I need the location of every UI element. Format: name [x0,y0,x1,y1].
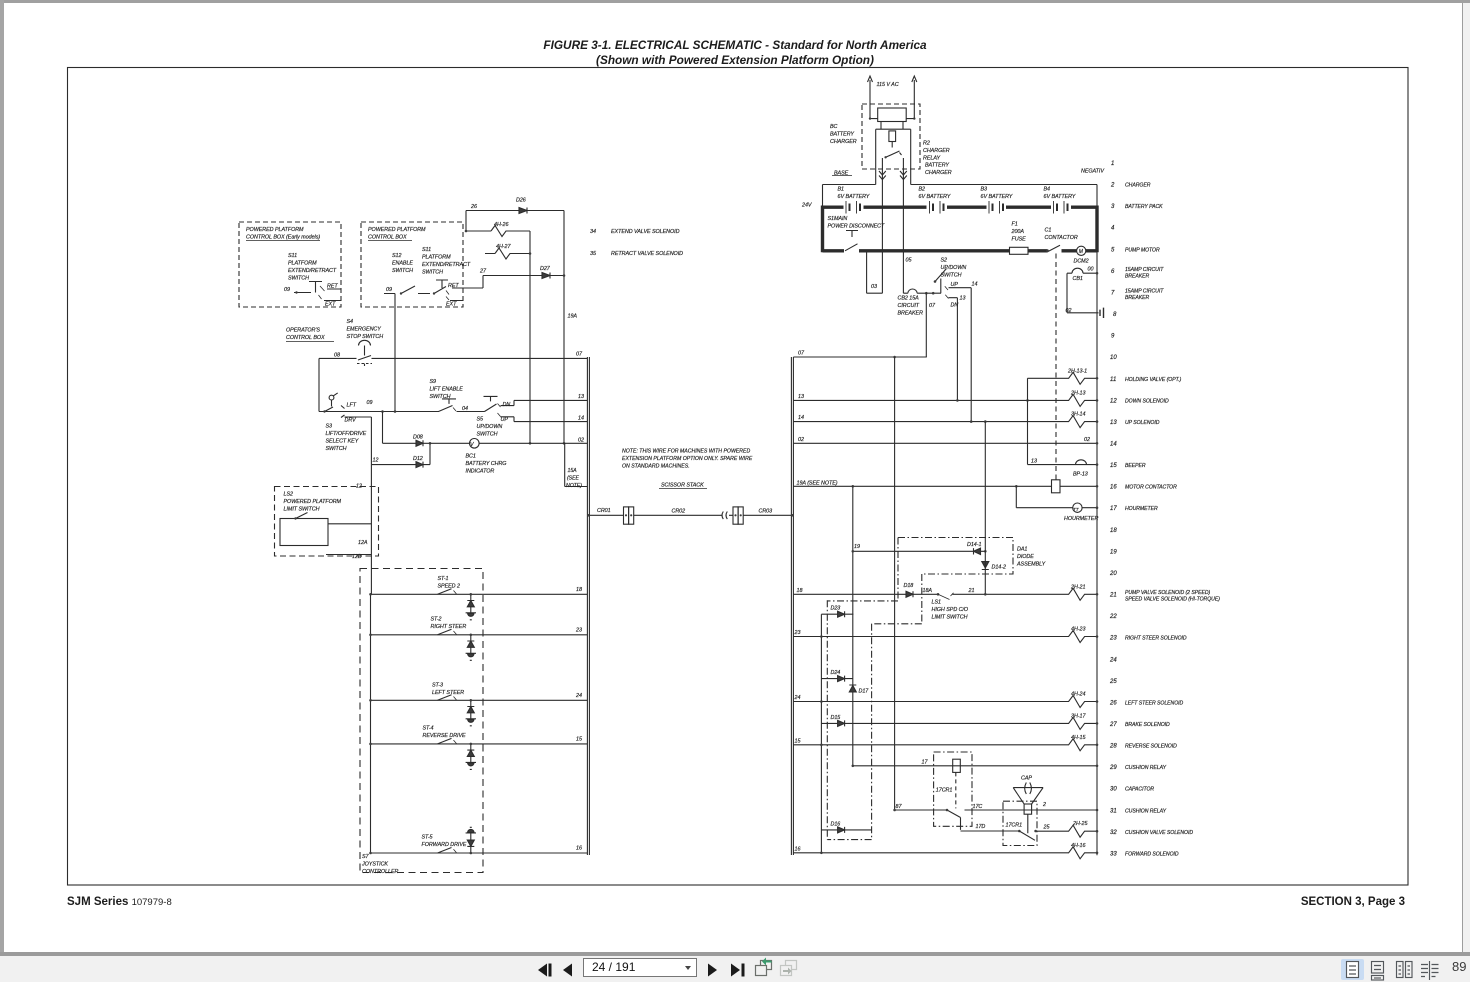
svg-text:25: 25 [1109,679,1117,685]
svg-text:D18: D18 [904,583,914,589]
svg-text:UP: UP [501,417,509,423]
svg-text:RIGHT STEER: RIGHT STEER [431,624,467,630]
svg-text:EMERGENCY: EMERGENCY [347,327,382,333]
svg-text:SWITCH: SWITCH [941,273,962,279]
svg-text:SWITCH: SWITCH [392,268,413,274]
svg-text:19A (SEE NOTE): 19A (SEE NOTE) [797,481,838,487]
svg-text:21: 21 [1109,593,1117,599]
svg-text:ON STANDARD MACHINES.: ON STANDARD MACHINES. [622,464,690,470]
svg-text:SWITCH: SWITCH [288,276,309,282]
svg-text:R2: R2 [923,141,930,147]
svg-text:3H-17: 3H-17 [1071,713,1086,719]
svg-text:PUMP VALVE SOLENOID (2 SPEED): PUMP VALVE SOLENOID (2 SPEED) [1125,590,1211,596]
svg-text:CHARGER: CHARGER [830,139,857,145]
svg-text:04: 04 [462,406,468,412]
svg-text:S1MAIN: S1MAIN [828,216,848,222]
svg-text:ST-4: ST-4 [423,726,434,732]
svg-text:DOWN SOLENOID: DOWN SOLENOID [1125,398,1169,404]
svg-text:2H-21: 2H-21 [1070,584,1085,590]
svg-text:6: 6 [1111,269,1115,275]
svg-text:BC: BC [830,124,838,130]
svg-text:19: 19 [854,544,860,550]
svg-text:CHARGER: CHARGER [1125,183,1151,189]
svg-text:23: 23 [1109,636,1117,642]
svg-text:LIFT/OFF/DRIVE: LIFT/OFF/DRIVE [326,431,367,437]
svg-text:05: 05 [906,258,913,264]
svg-text:ST-2: ST-2 [431,617,442,623]
svg-text:D08: D08 [413,434,423,440]
svg-text:17D: 17D [976,824,986,830]
svg-text:BREAKER: BREAKER [898,311,924,317]
svg-text:LEFT STEER SOLENOID: LEFT STEER SOLENOID [1125,700,1184,706]
svg-text:D14-1: D14-1 [967,542,981,548]
svg-text:12: 12 [1110,398,1117,404]
svg-text:12A: 12A [358,540,368,546]
svg-text:CONTROL BOX: CONTROL BOX [368,235,407,241]
svg-text:115 V AC: 115 V AC [877,82,899,88]
svg-text:9: 9 [1111,334,1115,340]
svg-text:16: 16 [1110,485,1117,491]
svg-text:13: 13 [1031,459,1037,465]
svg-text:HOURMETER: HOURMETER [1125,506,1158,512]
svg-text:LS2: LS2 [284,492,293,498]
svg-text:ASSEMBLY: ASSEMBLY [1016,562,1046,568]
svg-text:CUSHION RELAY: CUSHION RELAY [1125,765,1167,771]
svg-text:27: 27 [1109,722,1117,728]
svg-text:NOTE: THIS WIRE FOR MACHINES W: NOTE: THIS WIRE FOR MACHINES WITH POWERE… [622,449,751,455]
svg-text:LFT: LFT [347,403,357,409]
svg-text:DA1: DA1 [1017,547,1027,553]
svg-text:S7: S7 [362,854,370,860]
svg-text:4H-23: 4H-23 [1071,627,1085,633]
svg-text:S11: S11 [288,253,297,259]
svg-text:(SEE: (SEE [567,476,579,482]
svg-text:S3: S3 [326,424,333,430]
svg-text:UP: UP [951,282,959,288]
svg-text:UP/DOWN: UP/DOWN [477,424,503,430]
svg-text:SPEED 2: SPEED 2 [438,584,460,590]
svg-text:BATTERY: BATTERY [830,132,854,138]
svg-text:B4: B4 [1044,187,1051,193]
svg-text:4H-26: 4H-26 [494,222,508,228]
svg-text:2H-13: 2H-13 [1070,390,1085,396]
svg-text:10: 10 [1110,355,1117,361]
svg-text:FORWARD SOLENOID: FORWARD SOLENOID [1125,851,1179,857]
svg-text:EXTEND/RETRACT: EXTEND/RETRACT [422,262,471,268]
svg-text:D16: D16 [831,821,841,827]
svg-text:CHARGER: CHARGER [925,170,952,176]
svg-text:NEGATIV: NEGATIV [1081,169,1105,175]
svg-text:CAPACITOR: CAPACITOR [1125,787,1154,793]
svg-text:07: 07 [576,352,583,358]
svg-text:CR03: CR03 [759,508,773,514]
svg-text:25: 25 [1043,825,1051,831]
svg-text:DCM2: DCM2 [1074,259,1089,265]
svg-text:1: 1 [1111,161,1114,167]
svg-text:6V BATTERY: 6V BATTERY [919,194,951,200]
svg-text:EXTEND/RETRACT: EXTEND/RETRACT [288,268,337,274]
svg-text:22: 22 [1109,614,1117,620]
svg-text:00: 00 [1088,267,1094,273]
svg-text:21: 21 [968,588,975,594]
svg-text:19: 19 [1110,549,1117,555]
svg-text:33: 33 [1110,851,1117,857]
svg-text:BREAKER: BREAKER [1125,295,1150,301]
svg-text:200A: 200A [1011,229,1025,235]
svg-text:DRV: DRV [345,418,358,424]
svg-text:15: 15 [576,737,583,743]
svg-text:BEEPER: BEEPER [1125,463,1146,469]
svg-text:STOP SWITCH: STOP SWITCH [347,334,384,340]
svg-text:BATTERY PACK: BATTERY PACK [1125,204,1163,210]
svg-text:28: 28 [1109,744,1117,750]
svg-text:CONTACTOR: CONTACTOR [1045,235,1078,241]
svg-text:MOTOR CONTACTOR: MOTOR CONTACTOR [1125,485,1177,491]
svg-text:UP/DOWN: UP/DOWN [941,265,967,271]
svg-text:15A: 15A [568,468,578,474]
svg-text:15AMP CIRCUIT: 15AMP CIRCUIT [1125,289,1164,295]
svg-text:M: M [1079,249,1084,255]
svg-text:19A: 19A [568,314,578,320]
svg-text:C1: C1 [1045,228,1052,234]
svg-text:02: 02 [1066,308,1072,314]
svg-text:RIGHT STEER SOLENOID: RIGHT STEER SOLENOID [1125,636,1187,642]
svg-text:CONTROLLER: CONTROLLER [362,869,398,875]
svg-text:13: 13 [798,394,804,400]
svg-text:S4: S4 [347,319,354,325]
svg-text:ENABLE: ENABLE [392,261,413,267]
svg-text:LIMIT SWITCH: LIMIT SWITCH [284,507,320,513]
svg-text:5: 5 [1111,247,1115,253]
svg-text:INDICATOR: INDICATOR [466,469,495,475]
svg-text:09: 09 [367,400,373,406]
svg-text:REVERSE SOLENOID: REVERSE SOLENOID [1125,744,1177,750]
svg-text:12: 12 [373,458,379,464]
svg-text:23: 23 [575,628,582,634]
svg-text:FUSE: FUSE [1012,237,1027,243]
svg-text:EXT: EXT [325,302,336,308]
svg-text:13: 13 [960,296,966,302]
svg-text:07: 07 [798,351,805,357]
svg-text:4: 4 [1111,226,1115,232]
svg-text:BRAKE SOLENOID: BRAKE SOLENOID [1125,722,1170,728]
svg-text:2H-13-1: 2H-13-1 [1067,368,1087,374]
svg-text:17: 17 [922,759,929,765]
svg-text:CIRCUIT: CIRCUIT [898,303,920,309]
svg-text:14: 14 [578,416,584,422]
svg-text:BATTERY: BATTERY [925,163,949,169]
svg-text:EXT: EXT [446,302,457,308]
svg-text:HIGH SPD C/O: HIGH SPD C/O [932,607,969,613]
svg-text:6V BATTERY: 6V BATTERY [1044,194,1076,200]
svg-text:LIMIT SWITCH: LIMIT SWITCH [932,615,968,621]
svg-text:18: 18 [797,588,803,594]
svg-text:15: 15 [1110,463,1117,469]
svg-text:4H-15: 4H-15 [1071,735,1086,741]
svg-text:2: 2 [1042,802,1046,808]
svg-text:SELECT KEY: SELECT KEY [326,439,359,445]
svg-text:12: 12 [356,484,362,490]
svg-text:35: 35 [590,251,597,257]
svg-text:V: V [470,442,475,448]
svg-text:14: 14 [972,282,978,288]
svg-text:D23: D23 [831,606,841,612]
svg-text:SPEED VALVE SOLENOID (HI-TORQU: SPEED VALVE SOLENOID (HI-TORQUE) [1125,597,1220,603]
svg-text:6V BATTERY: 6V BATTERY [981,194,1013,200]
svg-text:02: 02 [1084,437,1090,443]
svg-text:POWERED PLATFORM: POWERED PLATFORM [284,499,342,505]
svg-text:ST-3: ST-3 [432,683,443,689]
svg-text:S2: S2 [941,258,948,264]
svg-text:08: 08 [334,353,340,359]
svg-text:SWITCH: SWITCH [326,446,347,452]
svg-text:B3: B3 [981,187,988,193]
svg-text:BP-13: BP-13 [1073,472,1088,478]
svg-text:CR01: CR01 [597,508,611,514]
svg-text:DN: DN [503,402,511,408]
svg-text:CAP: CAP [1021,776,1032,782]
svg-text:09: 09 [386,287,392,293]
svg-text:17CR1: 17CR1 [936,788,953,794]
svg-text:D15: D15 [831,715,842,721]
svg-text:JOYSTICK: JOYSTICK [361,862,388,868]
svg-text:RET: RET [448,283,459,289]
svg-text:CONTROL BOX: CONTROL BOX [286,335,325,341]
svg-text:8: 8 [1113,312,1117,318]
svg-text:PLATFORM: PLATFORM [288,261,317,267]
svg-text:3H-14: 3H-14 [1071,412,1085,418]
svg-text:18A: 18A [923,588,933,594]
svg-text:4H-27: 4H-27 [496,244,511,250]
svg-text:POWERED PLATFORM: POWERED PLATFORM [368,227,426,233]
svg-text:LEFT STEER: LEFT STEER [432,690,464,696]
svg-text:26: 26 [1109,700,1117,706]
svg-text:17CR1: 17CR1 [1006,822,1023,828]
svg-text:SCISSOR STACK: SCISSOR STACK [661,483,704,489]
svg-text:27: 27 [479,269,487,275]
svg-text:LIFT ENABLE: LIFT ENABLE [430,387,464,393]
svg-text:HOLDING VALVE (OPT.): HOLDING VALVE (OPT.) [1125,377,1182,383]
svg-text:CB1: CB1 [1073,276,1083,282]
svg-text:13: 13 [1110,420,1117,426]
svg-text:D12: D12 [413,456,423,462]
svg-text:SWITCH: SWITCH [430,394,451,400]
svg-text:DIODE: DIODE [1017,554,1034,560]
svg-text:S9: S9 [430,379,437,385]
svg-text:BREAKER: BREAKER [1125,274,1150,280]
svg-text:09: 09 [284,287,290,293]
svg-text:CB2 15A: CB2 15A [898,296,920,302]
svg-text:POWER DISCONNECT: POWER DISCONNECT [828,224,885,230]
svg-text:20: 20 [1109,571,1117,577]
svg-text:S12: S12 [392,253,401,259]
svg-text:16: 16 [795,846,801,852]
svg-text:FORWARD DRIVE: FORWARD DRIVE [422,842,467,848]
svg-text:ST-1: ST-1 [438,576,449,582]
svg-text:LS1: LS1 [932,600,941,606]
svg-text:EXTEND VALVE SOLENOID: EXTEND VALVE SOLENOID [611,229,680,235]
svg-text:D14-2: D14-2 [992,565,1006,571]
svg-text:CONTROL BOX (Early models): CONTROL BOX (Early models) [246,235,320,241]
svg-text:POWERED PLATFORM: POWERED PLATFORM [246,227,304,233]
svg-text:D17: D17 [859,689,870,695]
svg-text:24V: 24V [801,203,813,209]
svg-text:17: 17 [1110,506,1117,512]
svg-text:07: 07 [929,303,936,309]
svg-text:30: 30 [1110,787,1117,793]
svg-text:6V BATTERY: 6V BATTERY [838,194,870,200]
svg-text:B1: B1 [838,187,845,193]
svg-text:BC1: BC1 [466,454,476,460]
svg-text:14: 14 [1110,442,1117,448]
svg-text:CR02: CR02 [672,508,686,514]
svg-text:29: 29 [1109,765,1117,771]
svg-text:2H-25: 2H-25 [1072,821,1088,827]
svg-text:23: 23 [794,630,801,636]
svg-text:7: 7 [1111,291,1115,297]
svg-text:31: 31 [1110,808,1117,814]
svg-text:D24: D24 [831,670,841,676]
svg-text:F1: F1 [1012,222,1018,228]
svg-text:BATTERY CHRG: BATTERY CHRG [466,461,507,467]
svg-text:11: 11 [1110,377,1116,383]
svg-text:32: 32 [1110,830,1117,836]
svg-text:CUSHION VALVE SOLENOID: CUSHION VALVE SOLENOID [1125,830,1193,836]
svg-text:24: 24 [794,695,801,701]
svg-text:S11: S11 [422,247,431,253]
svg-text:BASE: BASE [834,171,849,177]
svg-text:2: 2 [1110,183,1115,189]
svg-text:ST-5: ST-5 [422,835,434,841]
svg-text:PUMP MOTOR: PUMP MOTOR [1125,247,1160,253]
svg-text:03: 03 [871,284,877,290]
svg-text:12B: 12B [352,554,362,560]
svg-text:RETRACT VALVE SOLENOID: RETRACT VALVE SOLENOID [611,251,683,257]
svg-text:TT: TT [1073,507,1080,512]
svg-text:18: 18 [576,587,582,593]
svg-text:02: 02 [798,437,804,443]
svg-text:NOTE): NOTE) [566,483,582,489]
svg-text:3: 3 [1111,204,1115,210]
svg-text:D26: D26 [516,198,526,204]
svg-text:13: 13 [578,394,584,400]
svg-text:26: 26 [470,204,477,210]
svg-text:B2: B2 [919,187,926,193]
svg-text:24: 24 [1109,657,1117,663]
svg-text:CUSHION RELAY: CUSHION RELAY [1125,808,1167,814]
svg-text:EXTENSION PLATFORM OPTION ONLY: EXTENSION PLATFORM OPTION ONLY. SPARE WI… [622,456,753,462]
svg-text:CHARGER: CHARGER [923,148,950,154]
svg-text:OPERATOR'S: OPERATOR'S [286,328,320,334]
svg-text:HOURMETER: HOURMETER [1064,516,1098,522]
svg-text:S5: S5 [477,417,485,423]
svg-text:PLATFORM: PLATFORM [422,255,451,261]
svg-text:24: 24 [575,693,582,699]
svg-text:SWITCH: SWITCH [477,432,498,438]
svg-text:UP SOLENOID: UP SOLENOID [1125,420,1160,426]
svg-text:14: 14 [798,415,804,421]
svg-text:18: 18 [1110,528,1117,534]
svg-text:D27: D27 [540,266,551,272]
svg-text:16: 16 [576,846,582,852]
svg-text:34: 34 [590,229,596,235]
svg-text:02: 02 [578,437,584,443]
svg-text:DN: DN [951,303,959,309]
svg-text:87: 87 [896,804,903,810]
svg-text:4H-16: 4H-16 [1071,843,1085,849]
svg-text:4H-24: 4H-24 [1071,692,1085,698]
svg-text:RET: RET [327,284,338,290]
svg-text:SWITCH: SWITCH [422,270,443,276]
svg-text:REVERSE DRIVE: REVERSE DRIVE [423,733,467,739]
svg-text:15: 15 [795,738,802,744]
svg-text:15AMP CIRCUIT: 15AMP CIRCUIT [1125,267,1164,273]
svg-text:17C: 17C [973,804,983,810]
svg-text:RELAY: RELAY [923,156,940,162]
